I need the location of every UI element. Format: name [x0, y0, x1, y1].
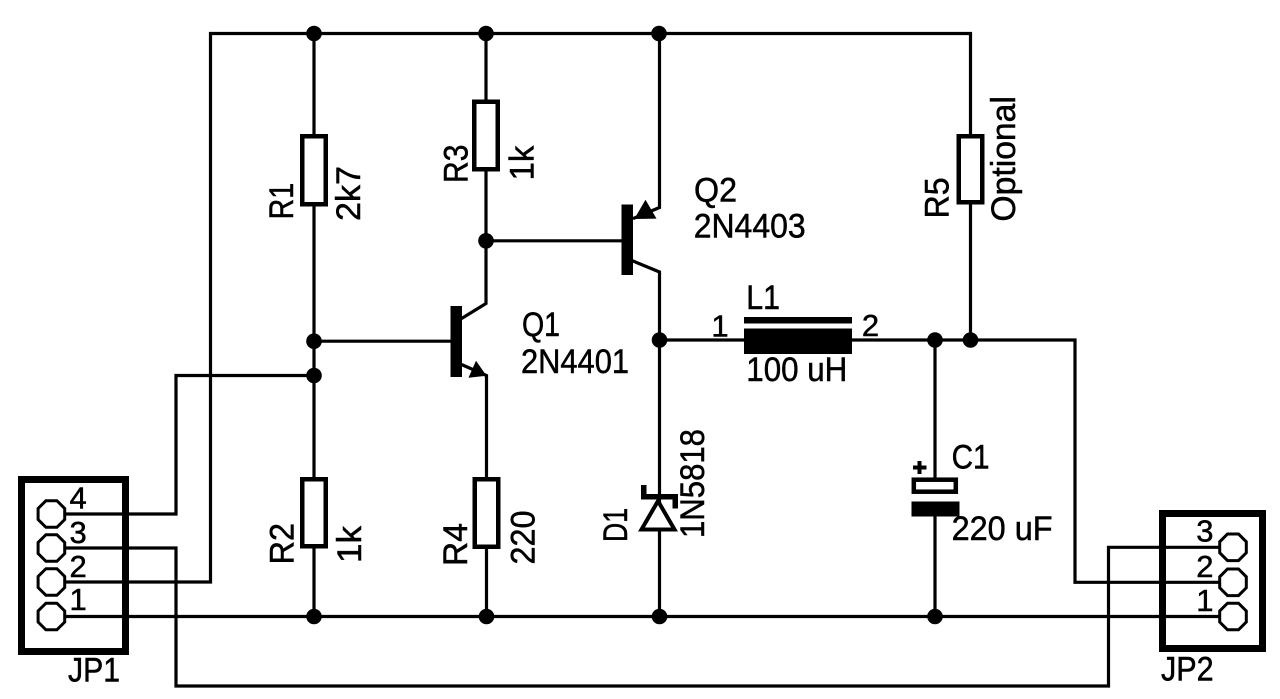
- wire C1 bottom to ground rail: [933, 514, 936, 617]
- svg-text:2: 2: [70, 549, 87, 584]
- capacitor C1 plus sign: [913, 461, 927, 474]
- connector JP1 pin 1 pad: [38, 603, 65, 630]
- svg-text:1: 1: [1196, 583, 1213, 618]
- wire Q1 emitter to R4 top: [462, 365, 487, 478]
- wire ground rail JP1 pin1 to JP2 pin1: [66, 615, 1219, 618]
- svg-text:2N4401: 2N4401: [521, 343, 629, 381]
- node junction top rail R3: [478, 26, 494, 42]
- wire R3 top feed from top rail: [484, 34, 487, 100]
- svg-text:3: 3: [1196, 514, 1213, 549]
- svg-text:4: 4: [70, 481, 87, 516]
- wire Q2 collector down to output node: [633, 261, 660, 340]
- resistor R5 body: [959, 136, 983, 202]
- connector JP1 pin 2 pad: [38, 569, 65, 596]
- wire R1 top feed from top rail: [312, 34, 315, 135]
- svg-text:1k: 1k: [331, 525, 369, 563]
- svg-text:1N5818: 1N5818: [674, 429, 712, 538]
- node junction R5 bottom: [963, 332, 979, 348]
- wire JP1 pin3 to JP2 pin3 bottom run: [66, 547, 1219, 686]
- connector JP2 pin 1 pad: [1220, 603, 1247, 630]
- capacitor C1 positive plate: [914, 480, 956, 492]
- svg-text:JP2: JP2: [1161, 651, 1214, 689]
- wire R4 bottom to ground rail: [485, 549, 488, 617]
- svg-text:R4: R4: [437, 523, 475, 566]
- svg-text:100 uH: 100 uH: [746, 351, 847, 389]
- svg-text:Q1: Q1: [522, 306, 560, 344]
- node junction ground R2: [306, 609, 322, 625]
- node junction JP1 pin4 branch: [306, 368, 322, 384]
- wire C1 top feed: [933, 340, 936, 479]
- node junction ground D1: [652, 609, 668, 625]
- svg-text:1k: 1k: [503, 145, 541, 181]
- connector JP2 pin 3 pad: [1220, 534, 1247, 561]
- inductor L1 top bar: [744, 317, 852, 324]
- svg-text:2k7: 2k7: [330, 166, 368, 221]
- node junction top rail R1: [306, 26, 322, 42]
- connector JP2 box: [1163, 514, 1263, 649]
- inductor L1 body bar: [744, 329, 852, 355]
- wire R1 bottom to R2 top: [312, 207, 315, 478]
- wire Q2 base: [486, 239, 622, 242]
- connector JP2 pin 2 pad: [1220, 569, 1247, 596]
- node junction ground C1: [927, 609, 943, 625]
- svg-text:L1: L1: [746, 279, 780, 317]
- svg-text:R5: R5: [919, 177, 957, 218]
- connector JP1 box: [22, 480, 126, 652]
- transistor Q2 emitter arrow: [634, 200, 656, 219]
- svg-text:2: 2: [1196, 549, 1213, 584]
- svg-text:220: 220: [505, 511, 543, 565]
- resistor R2 body: [302, 479, 326, 546]
- connector JP1 pin 3 pad: [38, 535, 65, 562]
- connector JP1 pin 4 pad: [38, 501, 65, 528]
- wire Q2 emitter from top rail: [635, 34, 660, 219]
- svg-text:1: 1: [70, 582, 87, 617]
- node junction C1 top: [927, 332, 943, 348]
- resistor R3 body: [474, 102, 498, 170]
- diode D1 cathode right hook: [673, 500, 679, 509]
- wire R5 bottom to output rail: [969, 205, 972, 341]
- transistor Q1 emitter arrow: [469, 361, 487, 378]
- wire node to Q1 collector: [462, 241, 487, 319]
- svg-text:JP1: JP1: [68, 652, 120, 690]
- wire output node through L1 to JP2 pin2: [660, 340, 1219, 582]
- svg-text:220 uF: 220 uF: [952, 510, 1053, 548]
- node junction R3 bottom / Q2 base: [478, 233, 494, 249]
- svg-text:R3: R3: [438, 145, 476, 184]
- svg-text:Optional: Optional: [985, 96, 1023, 222]
- node junction output / D1 / L1: [652, 332, 668, 348]
- svg-text:R2: R2: [264, 523, 302, 565]
- resistor R4 body: [475, 479, 499, 547]
- node junction Q1 base: [306, 333, 322, 349]
- wire R3 bottom to node: [484, 172, 487, 241]
- svg-text:1: 1: [711, 308, 728, 343]
- transistor Q2 base bar: [622, 205, 634, 276]
- svg-text:C1: C1: [952, 439, 990, 477]
- wire JP1 pin4 to R1/R2 node: [66, 376, 314, 515]
- wire VIN: JP1 pin2 right, up left riser, along top rail, down to R5 top: [66, 34, 971, 583]
- capacitor C1 negative plate: [912, 502, 960, 517]
- wire D1 vertical through diode to ground rail: [658, 340, 661, 617]
- wire Q1 base: [314, 340, 451, 343]
- node junction top rail Q2 emitter: [651, 26, 667, 42]
- node junction ground R4: [479, 609, 495, 625]
- diode D1 cathode bar: [641, 494, 678, 500]
- svg-text:2N4403: 2N4403: [694, 207, 806, 245]
- svg-text:3: 3: [70, 515, 87, 550]
- diode D1 anode triangle: [642, 501, 675, 530]
- svg-text:R1: R1: [263, 183, 301, 220]
- svg-text:Q2: Q2: [694, 171, 737, 209]
- wire R2 bottom to ground rail: [312, 549, 315, 617]
- resistor R1 body: [302, 136, 326, 204]
- svg-text:2: 2: [862, 308, 879, 343]
- svg-text:D1: D1: [597, 508, 635, 542]
- transistor Q1 base bar: [451, 306, 463, 377]
- diode D1 cathode left hook: [641, 485, 647, 494]
